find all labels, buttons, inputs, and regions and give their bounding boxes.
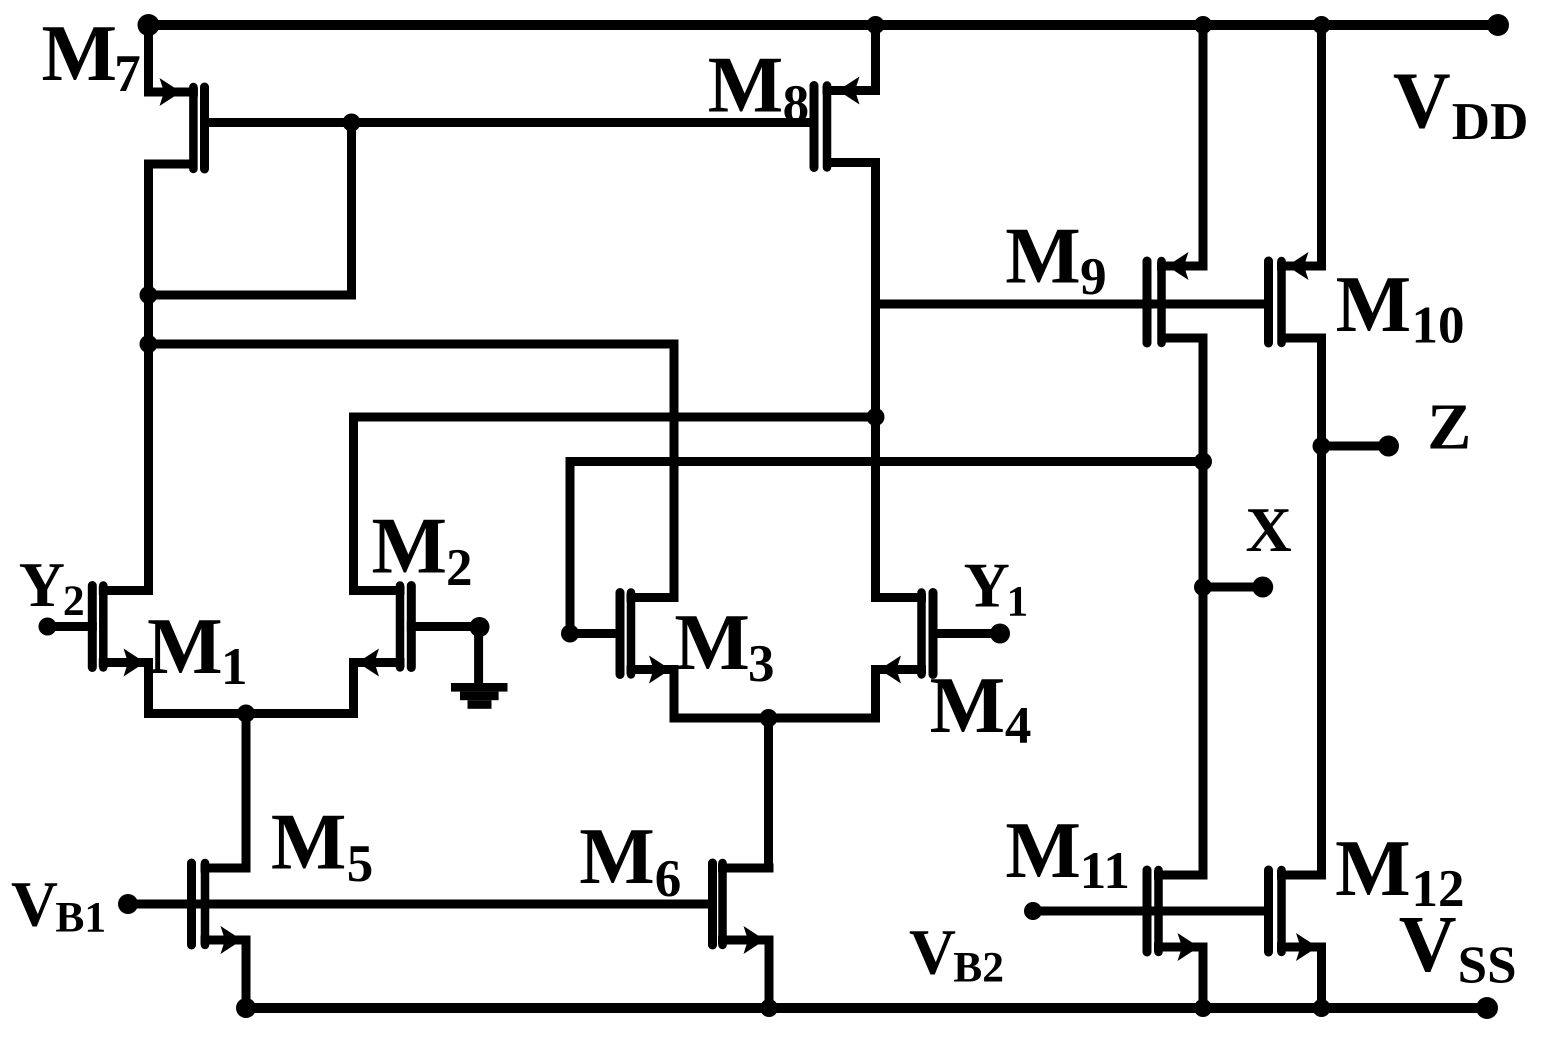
svg-text:M: M: [674, 599, 750, 687]
svg-text:M: M: [930, 662, 1006, 750]
svg-text:SS: SS: [1458, 937, 1517, 995]
svg-text:M: M: [1336, 261, 1412, 349]
svg-text:9: 9: [1080, 248, 1107, 306]
svg-text:V: V: [909, 917, 956, 989]
svg-text:M: M: [147, 603, 223, 691]
svg-text:M: M: [579, 813, 655, 901]
svg-text:B2: B2: [953, 944, 1004, 992]
svg-text:M: M: [1005, 807, 1081, 895]
svg-text:3: 3: [748, 635, 775, 693]
svg-text:Y: Y: [19, 549, 65, 620]
svg-text:V: V: [1399, 901, 1457, 989]
svg-text:M: M: [372, 503, 448, 591]
svg-text:M: M: [42, 10, 118, 98]
svg-text:V: V: [1393, 58, 1451, 146]
svg-text:M: M: [1335, 825, 1411, 913]
svg-text:M: M: [271, 799, 347, 887]
svg-text:B1: B1: [55, 894, 106, 942]
svg-text:11: 11: [1080, 842, 1130, 900]
svg-text:4: 4: [1005, 697, 1032, 755]
svg-text:6: 6: [655, 850, 682, 908]
svg-text:X: X: [1246, 494, 1292, 565]
svg-text:2: 2: [63, 577, 85, 625]
svg-text:5: 5: [347, 835, 374, 893]
svg-text:DD: DD: [1452, 93, 1529, 151]
svg-text:1: 1: [1007, 577, 1029, 625]
svg-text:Z: Z: [1427, 391, 1471, 464]
svg-text:M: M: [708, 41, 784, 129]
svg-text:1: 1: [221, 638, 248, 696]
svg-text:V: V: [11, 869, 58, 941]
svg-text:7: 7: [114, 45, 141, 103]
svg-text:M: M: [1005, 213, 1081, 301]
svg-text:2: 2: [446, 539, 473, 597]
svg-text:8: 8: [783, 75, 810, 133]
svg-text:10: 10: [1412, 297, 1465, 355]
svg-text:Y: Y: [964, 549, 1010, 620]
